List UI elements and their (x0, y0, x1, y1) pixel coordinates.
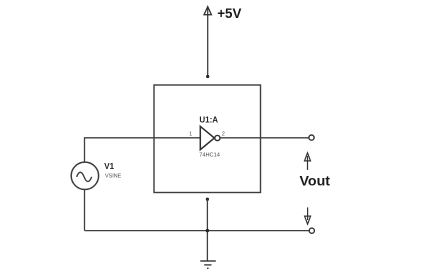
source V1 circle (71, 162, 98, 189)
sine symbol (77, 172, 92, 181)
up arrow (probe +) (307, 156, 309, 170)
terminal (Vout bottom) (309, 228, 314, 233)
wire (V1 bottom lead) (84, 190, 86, 231)
svg-text:2: 2 (222, 132, 225, 138)
ground symbol (200, 261, 216, 268)
junction dot (ground pin of U1) (206, 198, 209, 201)
junction dot (power pin of U1) (206, 75, 209, 78)
power +5V wire (207, 8, 209, 77)
inverter output bubble (215, 135, 220, 140)
junction dot (ground rail crossing) (206, 229, 209, 232)
down arrow (probe -) (307, 207, 309, 220)
wire (U1 ground pin down to ground) (206, 199, 208, 261)
terminal (Vout top) (309, 135, 314, 140)
wire (V1 top lead) (84, 137, 86, 162)
wire (output from inverter to top terminal) (220, 137, 309, 139)
svg-text:74HC14: 74HC14 (199, 152, 220, 158)
svg-text:1: 1 (189, 132, 192, 138)
wire (bottom ground rail) (85, 230, 309, 232)
power +5V arrowhead (204, 7, 211, 15)
svg-text:+5V: +5V (217, 6, 241, 21)
IC body box U1 (154, 85, 261, 193)
inverter U1:A triangle (200, 126, 214, 149)
svg-text:VSINE: VSINE (105, 173, 122, 179)
svg-text:V1: V1 (104, 162, 114, 171)
svg-text:Vout: Vout (300, 174, 331, 190)
wire (input from V1 to inverter) (85, 137, 201, 139)
svg-text:U1:A: U1:A (199, 116, 218, 125)
